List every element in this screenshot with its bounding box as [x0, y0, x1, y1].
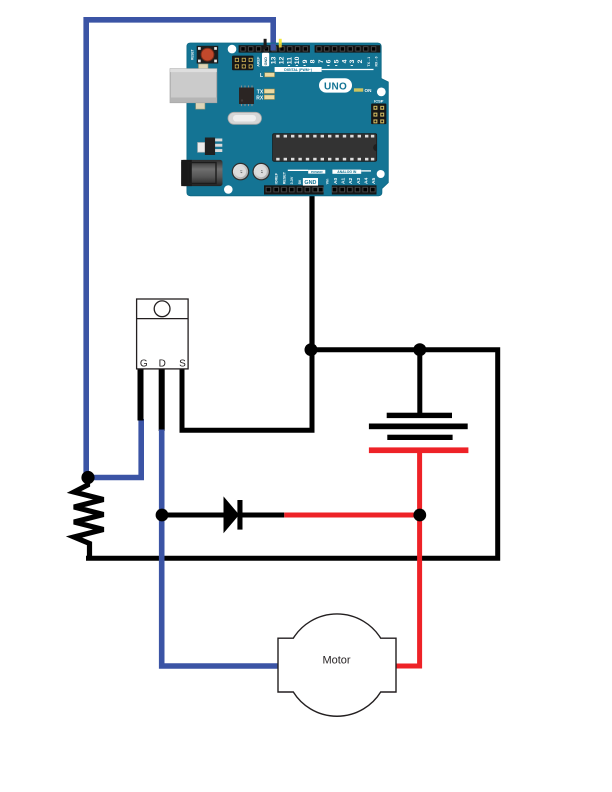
svg-text:ICSP: ICSP	[374, 98, 384, 103]
wire black gate leg	[138, 368, 144, 421]
svg-text:5: 5	[334, 59, 341, 63]
svg-text:ANALOG IN: ANALOG IN	[337, 170, 357, 174]
node gate-resistor junction	[81, 471, 94, 484]
TX RX LEDs and labels	[256, 89, 274, 101]
electrolytic capacitor C1	[232, 163, 248, 179]
svg-text:5V: 5V	[298, 179, 302, 184]
svg-text:A0: A0	[333, 177, 339, 184]
svg-text:47: 47	[260, 170, 264, 174]
svg-text:47: 47	[239, 170, 243, 174]
svg-text:7: 7	[318, 59, 325, 63]
mounting hole top-left	[228, 45, 237, 54]
wire black diode anode	[162, 513, 225, 518]
svg-text:A5: A5	[371, 177, 377, 184]
svg-text:Vin: Vin	[326, 178, 330, 184]
TX1 RX0 labels	[367, 56, 379, 66]
wire red diode to junction	[284, 513, 420, 518]
power jack	[181, 160, 222, 186]
node drain-diode junction	[156, 509, 169, 522]
analog pin labels	[333, 177, 377, 184]
node ground A	[305, 343, 318, 356]
svg-text:G: G	[140, 359, 148, 370]
wire blue gate segment	[87, 419, 141, 478]
svg-text:4: 4	[341, 59, 348, 63]
svg-text:13: 13	[271, 56, 278, 64]
svg-text:GND: GND	[264, 57, 268, 66]
wire red battery positive to motor	[396, 452, 420, 666]
svg-text:Motor: Motor	[322, 655, 350, 667]
svg-text:11: 11	[286, 57, 293, 64]
svg-text:A2: A2	[348, 177, 354, 184]
digital header strip 2	[315, 45, 381, 52]
yellow wire stub pin12	[279, 39, 282, 46]
crystal oscillator	[228, 112, 262, 124]
wire black ground rail top/right/bottom	[86, 350, 498, 559]
svg-text:UNO: UNO	[324, 81, 347, 92]
voltage regulator	[198, 138, 223, 156]
ATmega328 DIP IC	[273, 134, 377, 162]
svg-text:DIGITAL (PWM~): DIGITAL (PWM~)	[284, 68, 312, 72]
motor	[278, 614, 396, 716]
wire black GND from Arduino	[309, 191, 314, 350]
svg-text:A3: A3	[356, 177, 362, 184]
svg-text:TX→1: TX→1	[367, 57, 371, 67]
wire blue drain to motor	[162, 430, 278, 667]
ICSP header	[371, 104, 386, 125]
svg-text:3: 3	[349, 59, 356, 63]
MOSFET TO-220 package	[137, 299, 189, 369]
svg-text:A1: A1	[340, 177, 346, 184]
pin 13 GND male pin stub	[264, 39, 267, 52]
ATmega16U2 chip	[239, 86, 254, 107]
svg-text:A4: A4	[363, 177, 369, 184]
wire black battery top stub	[417, 350, 422, 414]
node red junction	[413, 509, 426, 522]
analog header strip bottom	[332, 185, 377, 194]
power pin labels	[275, 171, 330, 184]
ANALOG IN label	[332, 170, 371, 174]
yellow wire stub into header	[279, 44, 282, 48]
resistor	[74, 478, 104, 558]
svg-text:3.3V: 3.3V	[290, 176, 294, 184]
svg-text:RESET: RESET	[283, 171, 287, 184]
DIGITAL PWM label box	[275, 65, 374, 72]
digital header strip 1	[239, 45, 310, 52]
mounting hole right-upper	[377, 88, 386, 97]
diode	[224, 496, 243, 533]
svg-text:12: 12	[279, 56, 286, 64]
mounting hole right-lower	[377, 170, 385, 178]
svg-text:ON: ON	[365, 88, 373, 93]
svg-text:L: L	[260, 73, 263, 79]
svg-text:D: D	[159, 359, 166, 370]
svg-text:GND: GND	[304, 180, 316, 186]
board PCB outline	[187, 43, 388, 196]
electrolytic capacitor C2	[253, 163, 269, 179]
POWER label	[288, 170, 326, 174]
svg-text:8: 8	[310, 59, 317, 63]
Arduino UNO board	[170, 39, 388, 196]
svg-text:POWER: POWER	[311, 170, 323, 174]
power header strip bottom	[264, 185, 324, 194]
svg-text:10: 10	[294, 56, 301, 64]
svg-text:RESET: RESET	[191, 49, 195, 60]
svg-text:9: 9	[302, 59, 309, 63]
wire black drain leg	[159, 368, 165, 431]
2x3 gold header	[232, 56, 254, 71]
svg-text:AREF: AREF	[256, 56, 260, 67]
svg-text:S: S	[179, 359, 186, 370]
ON LED and label	[354, 88, 372, 93]
wire blue pin13 to left rail	[86, 20, 273, 478]
svg-text:6: 6	[326, 59, 333, 63]
USB connector	[170, 64, 217, 109]
GND boxed label bottom	[303, 178, 318, 186]
svg-text:IOREF: IOREF	[275, 172, 279, 184]
mounting hole bottom-left	[224, 185, 233, 194]
wire blue pin13 stub into header	[271, 44, 276, 51]
reset button	[197, 46, 219, 64]
GND boxed label top	[262, 53, 269, 67]
svg-text:2: 2	[357, 59, 364, 63]
svg-text:RX←0: RX←0	[374, 56, 378, 66]
GND male pin stub into header	[264, 44, 267, 50]
UNO logo	[319, 78, 352, 92]
node battery top tap	[413, 343, 426, 356]
L LED and label	[260, 73, 275, 79]
wire black diode cathode	[242, 513, 284, 518]
battery	[369, 413, 469, 453]
wire black source to ground	[182, 350, 312, 430]
digital pin number labels	[271, 56, 364, 64]
svg-text:RX: RX	[256, 95, 264, 101]
